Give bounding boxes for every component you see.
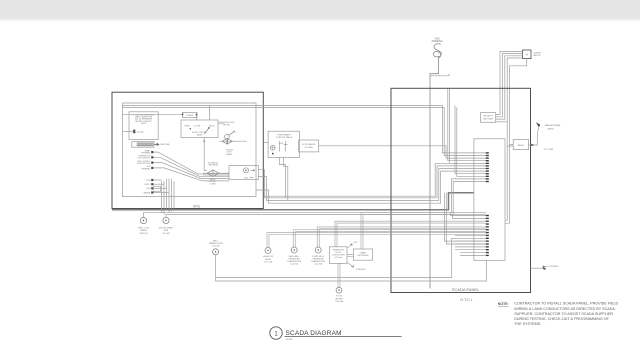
group2 tie wire 1	[153, 179, 161, 181]
diagonal harness wire 2	[153, 157, 229, 176]
connector box	[132, 142, 154, 148]
security lower tie wire	[496, 121, 508, 123]
well low water dot	[143, 220, 144, 221]
svg-text:WAVE ANTENNA: WAVE ANTENNA	[545, 124, 561, 127]
pwcv contact	[280, 143, 284, 144]
svg-text:WATER: WATER	[144, 191, 151, 194]
pump waste control valve box	[268, 131, 299, 157]
lag box	[229, 166, 258, 180]
future wire	[531, 267, 544, 269]
svg-text:WIRING & LAND CONDUCTORS AS DI: WIRING & LAND CONDUCTORS AS DIRECTED BY …	[514, 307, 615, 311]
surge wire 3 to security	[496, 56, 523, 119]
bell wire long run	[216, 238, 486, 277]
wire bundle1 branch d	[457, 108, 486, 177]
riser pair wire a	[335, 221, 486, 247]
wire bundle1 a	[123, 106, 487, 153]
svg-text:YAGI: YAGI	[434, 37, 440, 40]
svg-text:ARSTR: ARSTR	[534, 54, 542, 57]
bell wire second run	[216, 260, 487, 281]
future flag symbol	[542, 266, 546, 270]
svg-text:4-20mA: 4-20mA	[137, 130, 144, 133]
top toolbar band	[0, 0, 640, 18]
solenoid through wire 2	[203, 175, 229, 177]
svg-text:FUTURE ?: FUTURE ?	[549, 266, 560, 268]
riser pair wire b	[295, 232, 486, 247]
svg-text:V: V	[526, 53, 528, 57]
riser pair wire a	[317, 227, 486, 247]
group2 tie wire 3	[153, 187, 166, 189]
flow waste box	[299, 140, 319, 152]
antenna flag symbol	[536, 122, 541, 127]
surge wire 5 to radio	[510, 59, 527, 145]
pump well pressure circle	[315, 247, 321, 253]
svg-text:4-20 mA: 4-20 mA	[290, 263, 298, 266]
antenna cable stub branch	[430, 74, 449, 76]
flow meter pair wire b	[339, 263, 341, 287]
svg-text:WATER: WATER	[140, 229, 148, 232]
pwcv internal wire a	[279, 141, 281, 152]
bus stub t7	[455, 234, 486, 236]
SCADA panel enclosure	[391, 88, 531, 292]
signal arrow up	[348, 244, 353, 248]
svg-text:CONTROL VALVE: CONTROL VALVE	[276, 136, 293, 139]
svg-text:ONE VALVE: ONE VALVE	[208, 164, 219, 167]
hl dot	[267, 250, 268, 251]
surge arrestor box	[523, 50, 532, 59]
pwcv tick	[272, 153, 274, 155]
svg-text:NEUTRAL: NEUTRAL	[161, 143, 171, 146]
surge wire 4 to radio	[507, 58, 522, 146]
svg-text:4-20 HZ: 4-20 HZ	[162, 233, 170, 235]
svg-text:CABLE: CABLE	[547, 127, 554, 130]
svg-text:SWITCH: SWITCH	[140, 233, 148, 235]
lag arrow2	[250, 177, 254, 179]
svg-text:CHART: CHART	[360, 252, 367, 255]
diagonal harness wire 3	[153, 163, 229, 179]
svg-text:COM: COM	[146, 180, 151, 182]
bundle4 wire b	[258, 169, 486, 201]
svg-text:LAG: LAG	[244, 176, 248, 179]
svg-text:TOTALIZER: TOTALIZER	[356, 268, 367, 271]
conduit branch down b	[446, 193, 486, 244]
svg-text:4-20 mA: 4-20 mA	[264, 260, 272, 263]
svg-text:OPEN: OPEN	[184, 125, 190, 127]
panel top drop wire b	[450, 88, 486, 163]
svg-text:CLOSE: CLOSE	[194, 125, 201, 127]
pwcv drop wire a	[280, 158, 286, 198]
svg-text:SCADA DIAGRAM: SCADA DIAGRAM	[286, 330, 342, 337]
bus stub b0	[455, 240, 486, 242]
bus stub b1	[455, 243, 486, 245]
bundle4 wire a	[258, 166, 486, 198]
lower terminal tick 1	[151, 179, 153, 181]
terminal tick 2	[151, 156, 153, 158]
svg-text:(CLOSE): (CLOSE)	[305, 147, 313, 149]
wb dot	[294, 249, 295, 250]
surge wire 1 to security	[496, 51, 523, 114]
bell transducer dot	[215, 251, 216, 252]
spec terminal mark	[133, 130, 135, 134]
svg-text:THE SYSTEMS.: THE SYSTEMS.	[514, 322, 541, 326]
high low level circle	[265, 248, 271, 254]
svg-text:VFD: VFD	[193, 204, 201, 208]
mount note leader	[218, 123, 225, 124]
svg-text:RADIO: RADIO	[518, 144, 525, 147]
svg-text:4-20 CONTROL: 4-20 CONTROL	[137, 158, 150, 160]
diagonal harness wire 4	[153, 168, 229, 181]
pwcv gauge mark	[271, 146, 276, 151]
svg-text:NOTE:: NOTE:	[498, 302, 509, 306]
terminal tick 4	[151, 167, 153, 169]
antenna coax cable down to panel	[430, 57, 439, 289]
switch arm	[204, 128, 209, 134]
vertical harness wire 1	[161, 181, 163, 213]
switch pivot dot	[208, 127, 210, 129]
bus stub b3	[455, 249, 486, 251]
solenoid through wire	[203, 172, 229, 174]
terminal strip	[474, 139, 505, 260]
pump bus wire a	[144, 213, 487, 218]
riser pair wire a	[267, 233, 486, 248]
recorder riser wire a	[361, 213, 486, 249]
riser pair wire b	[269, 235, 486, 248]
lag dial	[244, 168, 249, 173]
svg-text:ANTENNA: ANTENNA	[432, 40, 443, 43]
terminal tick 3	[151, 162, 153, 164]
selector dot	[190, 128, 191, 129]
valve drop wire	[204, 138, 207, 171]
radio out wire	[529, 144, 531, 146]
chart recorder box	[353, 249, 372, 260]
controller to recorder wire	[347, 254, 353, 256]
lag dial dot	[245, 170, 246, 171]
VFD panel inner border	[123, 103, 257, 197]
well low water switch circle	[140, 217, 146, 223]
svg-text:4-20 mA: 4-20 mA	[212, 245, 220, 248]
solenoid valve symbol	[207, 170, 219, 176]
pump bus branch up a	[451, 179, 486, 213]
pwcv drop wire b	[284, 158, 288, 201]
svg-text:SUPPLIER. CONTRACTOR TO ASSIS: SUPPLIER. CONTRACTOR TO ASSIST SCADA SUP…	[514, 312, 613, 316]
pump bus wire b	[166, 215, 486, 219]
svg-text:FLOW SETTING: FLOW SETTING	[137, 163, 151, 165]
vertical harness wire 6	[173, 181, 175, 210]
svg-text:CHART: CHART	[226, 153, 233, 156]
valve wire	[219, 140, 247, 142]
svg-text:5 OHM: 5 OHM	[210, 183, 216, 185]
flow waste wire to panel	[319, 146, 486, 158]
svg-text:MOTOR SHAFT: MOTOR SHAFT	[159, 227, 174, 230]
lower terminal tick 4	[151, 191, 153, 193]
flow control valve box	[181, 120, 218, 138]
security switches box	[481, 113, 496, 123]
radio wire arrowhead	[531, 144, 534, 146]
title underline	[285, 336, 402, 338]
vertical harness wire 2	[163, 181, 165, 215]
reservoir flow controller box	[329, 247, 347, 264]
power node dots	[182, 113, 184, 115]
svg-text:TRANSDUCER: TRANSDUCER	[287, 260, 301, 263]
svg-text:SCADA PANEL: SCADA PANEL	[452, 287, 480, 292]
lower connector box	[154, 186, 161, 191]
VFD panel outer enclosure	[112, 92, 263, 208]
svg-text:TRANSDUCER: TRANSDUCER	[311, 260, 325, 263]
controller-recorder wire 2	[347, 256, 353, 258]
diagonal harness wire 1	[153, 152, 229, 174]
riser pair wire b	[337, 223, 486, 247]
svg-text:24VDC: 24VDC	[144, 184, 151, 186]
vertical harness wire 3	[166, 179, 168, 210]
svg-text:TRANSDUCER: TRANSDUCER	[209, 242, 223, 245]
pump bus branch up b	[453, 182, 486, 215]
svg-text:SWITCHES: SWITCHES	[483, 118, 494, 120]
motor valve symbol	[222, 139, 233, 145]
pwcv gauge circle	[271, 146, 276, 151]
coax wire outside	[531, 128, 539, 146]
power drop wire 2	[208, 106, 210, 121]
bundle4 wire c	[256, 171, 486, 203]
power drop wire	[195, 115, 197, 121]
flow meter circle	[336, 287, 342, 293]
lag arrow	[251, 169, 255, 171]
riser pair wire b	[319, 229, 486, 247]
connector striped bar	[137, 143, 154, 146]
junction dot	[203, 140, 205, 142]
svg-text:ONLY: ONLY	[141, 123, 147, 125]
thick conduit line	[112, 193, 474, 210]
svg-text:1/2" COAX: 1/2" COAX	[544, 148, 554, 151]
wire to power box	[123, 113, 183, 115]
bus stub b2	[455, 246, 486, 248]
yagi antenna spiral symbol	[433, 44, 441, 58]
group2 tie wire 2	[153, 183, 164, 185]
panel top drop wire a	[448, 88, 486, 160]
svg-text:CONTRACTOR TO INSTALL SCADA PA: CONTRACTOR TO INSTALL SCADA PANEL, PROVI…	[514, 302, 618, 306]
terminal ticks group A	[486, 152, 489, 182]
svg-text:VALVE: VALVE	[197, 134, 204, 137]
riser pair wire a	[293, 230, 486, 247]
pw dot	[318, 249, 319, 250]
flow meter pair wire a	[337, 263, 339, 287]
vertical harness wire 5	[171, 179, 173, 212]
svg-text:AUTO: AUTO	[209, 124, 215, 127]
svg-text:TERMINAL: TERMINAL	[141, 167, 150, 170]
svg-text:4-20 mA: 4-20 mA	[335, 300, 343, 303]
bundle4 wire d	[265, 163, 487, 196]
svg-text:4-20: 4-20	[354, 242, 358, 244]
lower terminal tick 2	[151, 183, 153, 185]
conduit branch down a	[445, 193, 487, 241]
svg-text:SECURITY: SECURITY	[483, 116, 493, 118]
terminal ticks group B	[486, 215, 489, 256]
right side drop wire	[505, 146, 507, 220]
svg-text:FLOW WASTE: FLOW WASTE	[302, 143, 316, 146]
motor shaft circle	[163, 217, 169, 223]
lower terminal tick 3	[151, 187, 153, 189]
svg-text:POWER: POWER	[186, 115, 194, 117]
svg-text:DURING TESTING, CHECK-OUT & PR: DURING TESTING, CHECK-OUT & PROGRAMMING …	[514, 317, 609, 321]
pwcv t-bar	[284, 143, 288, 145]
svg-text:COM: COM	[146, 188, 151, 190]
right side drop wire 2	[505, 145, 510, 224]
terminal tick 1	[151, 151, 153, 153]
VFD spec note box	[129, 112, 158, 140]
group2 tie wire 4	[153, 192, 169, 194]
bell transducer circle	[213, 249, 219, 255]
well bell pressure circle	[291, 247, 297, 253]
svg-text:4-20 mA: 4-20 mA	[335, 256, 343, 259]
radio box	[513, 140, 528, 150]
svg-text:TERMINAL: TERMINAL	[141, 152, 150, 155]
svg-text:4-20 mA: 4-20 mA	[314, 263, 322, 266]
motor shaft dot	[165, 220, 166, 221]
title bubble	[270, 327, 282, 339]
signal arrow down	[348, 263, 354, 268]
pwcv internal wire b	[285, 141, 287, 152]
wire to spec terminal	[123, 130, 134, 132]
svg-text:OF VFD: OF VFD	[223, 124, 231, 126]
wire bundle1 b	[123, 108, 487, 156]
power box	[183, 112, 198, 117]
bus stub b5	[460, 252, 486, 254]
svg-text:RECORDER: RECORDER	[358, 255, 369, 257]
wire bundle1 branch c	[455, 106, 486, 174]
surge wire 2 to security	[496, 54, 523, 117]
svg-text:NONE: NONE	[286, 339, 293, 341]
wire vfd to pwcv	[263, 142, 268, 144]
fm dot	[338, 290, 339, 291]
vertical harness wire 4	[168, 179, 170, 213]
recorder riser wire b	[363, 215, 486, 249]
connector arrow	[154, 143, 159, 145]
bus stub b6	[460, 254, 486, 256]
svg-text:O.T.C.I.: O.T.C.I.	[460, 298, 473, 302]
